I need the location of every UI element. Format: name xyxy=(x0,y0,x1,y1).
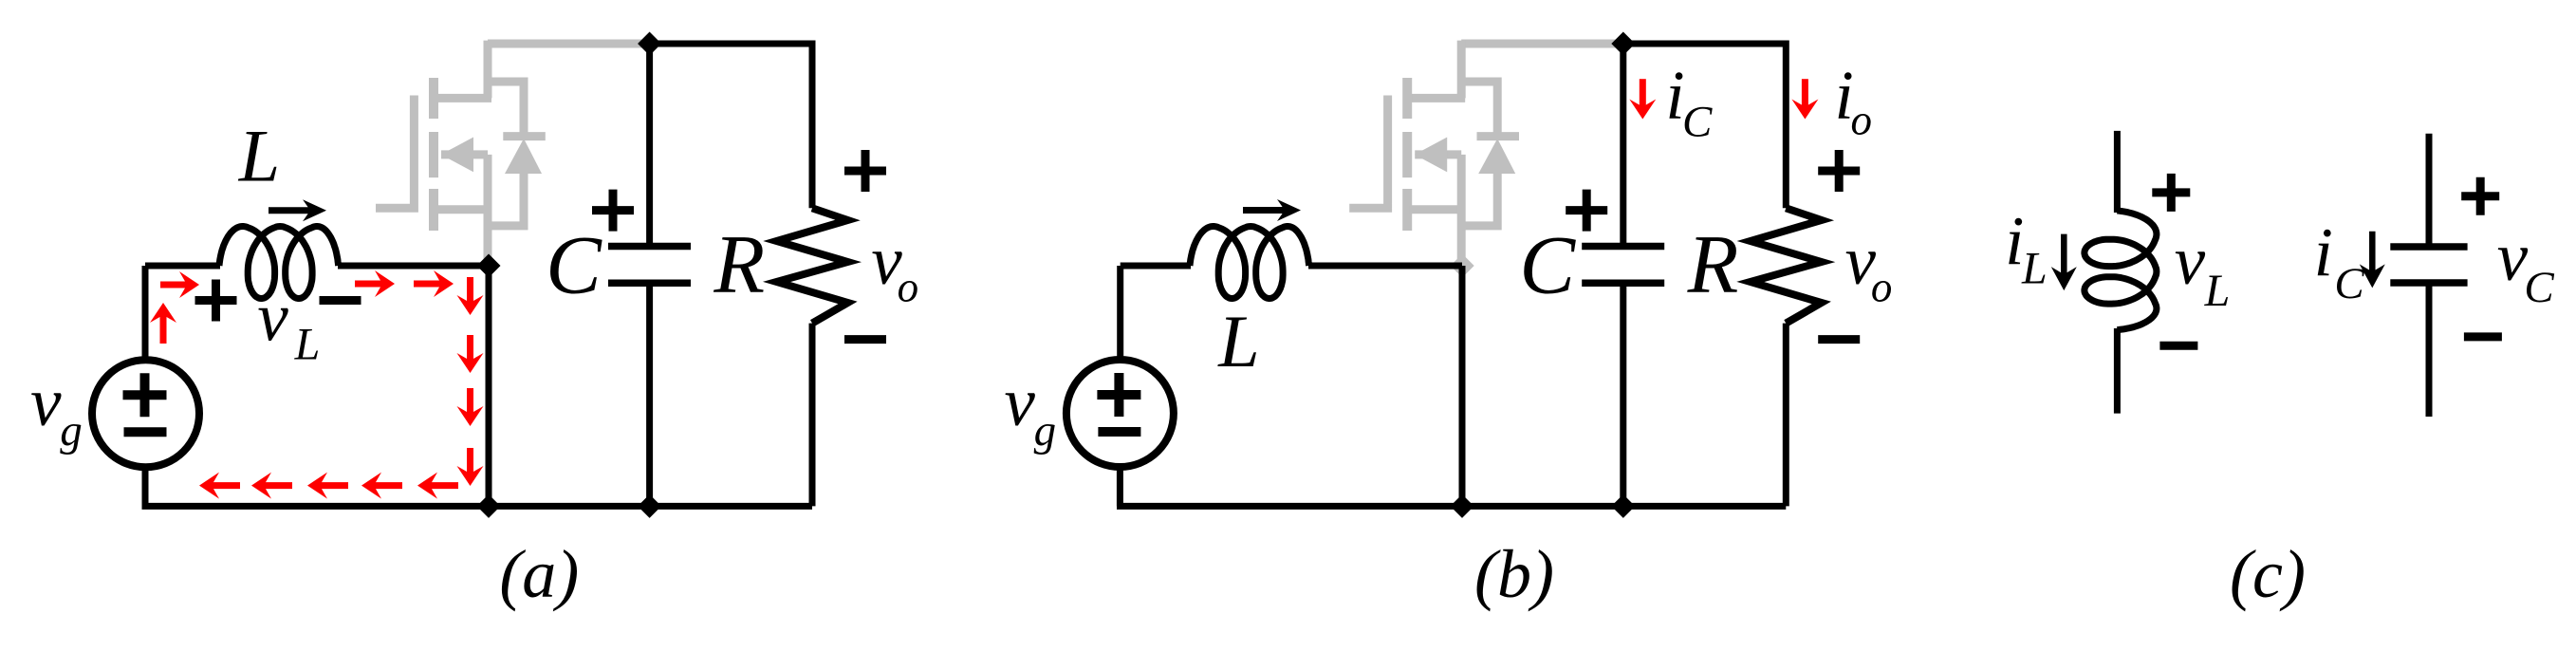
svg-text:C: C xyxy=(1519,220,1576,312)
wire: (a) left vertical from source top to inductor level xyxy=(142,266,149,360)
red arrow i_o (b) xyxy=(1791,79,1818,119)
wire: (b) inductor to switch node xyxy=(1308,263,1462,270)
label - of v_L (a) xyxy=(320,296,361,305)
svg-text:o: o xyxy=(1871,263,1893,310)
transistor Q1 channel bars xyxy=(429,78,438,231)
wire: (c) inductor top lead xyxy=(2114,131,2121,213)
inductor L (a) coil xyxy=(219,227,339,299)
label i_C (c) xyxy=(2314,214,2365,308)
red current loop arrows (a): leftward along bottom xyxy=(199,473,458,499)
wire: (b) capacitor branch upper xyxy=(1620,44,1626,247)
wire: (a) capacitor branch upper xyxy=(646,44,653,247)
wire: (a) resistor branch lower xyxy=(809,324,816,507)
wire: (a) inductor to switch node xyxy=(338,263,489,270)
label + of C (b) xyxy=(1566,190,1607,232)
wire: (a) bottom rail xyxy=(142,503,813,510)
svg-text:o: o xyxy=(1850,97,1872,144)
arrow i_L direction (c) xyxy=(2051,234,2077,291)
transistor Q1 substrate arrow xyxy=(441,138,488,173)
capacitor C (a) plates xyxy=(608,247,691,284)
svg-text:(a): (a) xyxy=(499,536,579,612)
transistor Q1 gate xyxy=(1349,96,1387,209)
inductor L (c) coil (vertical) xyxy=(2085,211,2157,330)
transistor Q1 source lead xyxy=(1410,155,1462,267)
label - of v_o (a) xyxy=(844,335,886,344)
svg-text:L: L xyxy=(2021,244,2048,294)
label v_o (a) xyxy=(871,222,918,310)
transistor Q1 source lead xyxy=(436,155,489,267)
wire: gray drain wire to top rail xyxy=(1461,40,1623,48)
wire: (a) switch-node vertical xyxy=(486,266,492,506)
wire: (b) capacitor branch lower xyxy=(1620,283,1626,506)
wire: (a) top rail (node to resistor) xyxy=(650,41,812,47)
label + of v_o (b) xyxy=(1818,150,1860,192)
wire: (a) top-left horizontal into inductor xyxy=(145,263,220,270)
resistor R (a) xyxy=(777,208,848,323)
label v_L (c) xyxy=(2175,222,2231,316)
wire: (a) resistor branch upper xyxy=(809,41,816,209)
red current loop arrows (a): up left side xyxy=(150,303,176,344)
wire: (b) switch-node vertical xyxy=(1459,266,1466,506)
node: (a) switch node xyxy=(477,254,501,278)
red current loop arrows (a): down switch-node branch xyxy=(457,277,484,486)
svg-text:(b): (b) xyxy=(1474,536,1554,612)
red arrow i_C (b) xyxy=(1629,79,1656,119)
label v_o (b) xyxy=(1845,222,1893,310)
label - of v_o (b) xyxy=(1818,335,1860,344)
resistor R (b) xyxy=(1751,208,1822,323)
transistor Q1 channel bars xyxy=(1402,78,1412,231)
wire: (b) top rail (node to resistor) xyxy=(1623,41,1787,47)
svg-text:C: C xyxy=(2334,259,2364,308)
wire: (a) source bottom stub xyxy=(142,467,149,506)
red current loop arrows (a): rightward along top xyxy=(160,270,454,298)
label i_C (b) xyxy=(1665,57,1713,147)
wire: (c) capacitor top lead xyxy=(2426,134,2433,247)
label v_g (b) xyxy=(1004,363,1056,456)
wire: (b) top-left horizontal into inductor xyxy=(1121,263,1191,270)
label - of v_L (c) xyxy=(2159,342,2197,350)
node: (a) top capacitor junction xyxy=(638,32,661,56)
svg-text:(c): (c) xyxy=(2230,536,2306,612)
svg-text:L: L xyxy=(1217,300,1259,382)
wire: gray drain wire to top rail xyxy=(488,40,650,48)
wire: (b) resistor branch upper xyxy=(1783,41,1789,209)
node: (b) gray switch node xyxy=(1451,254,1474,278)
svg-text:L: L xyxy=(2204,266,2231,316)
svg-text:L: L xyxy=(294,319,321,369)
capacitor C (c) plates xyxy=(2390,247,2467,283)
svg-text:C: C xyxy=(546,220,602,312)
svg-text:i: i xyxy=(2314,214,2333,290)
current direction arrow over inductor (b) xyxy=(1243,199,1301,221)
svg-text:o: o xyxy=(898,263,919,310)
label i_L (c) xyxy=(2005,202,2048,294)
wire: (b) resistor branch lower xyxy=(1783,324,1789,507)
node: (a) bottom switch junction xyxy=(477,494,501,518)
label + of v_L (c) xyxy=(2152,174,2190,212)
label v_L (a) xyxy=(257,279,320,370)
transistor Q1 drain lead xyxy=(1407,41,1465,99)
transistor Q1 gate xyxy=(376,96,414,209)
voltage source Vg (b) xyxy=(1066,360,1174,467)
node: (b) bottom capacitor junction xyxy=(1611,494,1635,518)
svg-text:C: C xyxy=(2524,263,2554,312)
svg-text:g: g xyxy=(1034,406,1057,456)
node: (b) bottom switch junction xyxy=(1451,494,1474,518)
label + of C (a) xyxy=(592,190,634,232)
svg-text:v: v xyxy=(30,363,62,440)
wire: (c) capacitor bottom lead xyxy=(2426,283,2433,417)
svg-text:v: v xyxy=(257,279,288,356)
wire: (b) source bottom stub xyxy=(1117,467,1123,506)
node: (a) bottom capacitor junction xyxy=(638,494,661,518)
capacitor C (b) plates xyxy=(1582,247,1664,284)
wire: (b) left vertical xyxy=(1117,266,1123,360)
svg-text:L: L xyxy=(238,115,280,197)
arrow i_C direction (c) xyxy=(2360,232,2385,288)
wire: (c) inductor bottom lead xyxy=(2114,328,2121,414)
label + of v_C (c) xyxy=(2461,177,2499,215)
svg-text:C: C xyxy=(1682,98,1713,147)
label v_g (a) xyxy=(30,363,83,456)
label i_o (b) xyxy=(1834,57,1871,144)
svg-text:R: R xyxy=(1687,219,1739,311)
svg-text:g: g xyxy=(60,406,83,456)
label + of v_L (a) xyxy=(195,280,237,322)
transistor Q1 drain lead xyxy=(434,41,491,99)
svg-text:v: v xyxy=(1004,363,1035,440)
node: (b) top capacitor junction xyxy=(1611,32,1635,56)
svg-text:R: R xyxy=(713,219,765,311)
svg-text:v: v xyxy=(2175,222,2206,299)
current direction arrow over inductor (a) xyxy=(269,199,326,221)
inductor L (b) coil xyxy=(1190,227,1309,299)
transistor Q1 substrate arrow xyxy=(1415,138,1461,173)
wire: (b) bottom rail xyxy=(1117,503,1786,510)
wire: (a) capacitor branch lower xyxy=(646,283,653,506)
voltage source Vg (a) xyxy=(92,360,199,467)
label + of v_o (a) xyxy=(844,150,886,192)
diode D1 (body diode) xyxy=(488,82,546,226)
diode D1 (body diode) xyxy=(1461,82,1519,226)
label v_C (c) xyxy=(2497,218,2555,312)
label - of v_C (c) xyxy=(2464,332,2502,341)
